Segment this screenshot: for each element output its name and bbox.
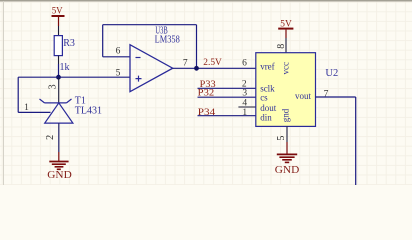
wire vout down bbox=[355, 97, 357, 185]
IC U2 body bbox=[256, 53, 316, 127]
svg-text:R3: R3 bbox=[63, 38, 75, 49]
svg-text:7: 7 bbox=[183, 59, 188, 69]
svg-text:TL431: TL431 bbox=[75, 106, 102, 117]
svg-text:LM358: LM358 bbox=[155, 35, 180, 46]
wire vout right bbox=[316, 96, 356, 98]
resistor R3 pin 2 (top) bbox=[58, 26, 60, 36]
resistor R3 bbox=[54, 36, 62, 56]
wire junction left to ref loop bbox=[18, 76, 58, 78]
ground GND (left) bbox=[47, 152, 72, 181]
svg-text:U2: U2 bbox=[325, 68, 338, 79]
wire op-amp pin 6 stub bbox=[103, 56, 130, 58]
svg-text:2.5V: 2.5V bbox=[203, 58, 222, 68]
wire feedback right vertical bbox=[196, 25, 198, 69]
junction node 2.5V rail bbox=[56, 75, 61, 80]
svg-text:2: 2 bbox=[45, 135, 56, 140]
svg-text:3: 3 bbox=[242, 88, 247, 98]
junction node output bbox=[194, 66, 199, 71]
wire P34 to din pin 1 bbox=[198, 115, 256, 117]
pin dout stub pin 4 bbox=[238, 106, 255, 108]
pin vcc pin 8 bbox=[285, 38, 287, 53]
svg-text:GND: GND bbox=[275, 165, 300, 176]
svg-text:cs: cs bbox=[260, 92, 268, 102]
svg-text:dout: dout bbox=[260, 103, 277, 113]
svg-text:vout: vout bbox=[295, 91, 312, 101]
resistor R3 pin 1 (bottom) bbox=[58, 56, 60, 64]
svg-text:6: 6 bbox=[242, 59, 247, 69]
wire ref loop vertical bbox=[17, 77, 19, 112]
transistor T1 TL431 bbox=[40, 77, 73, 123]
wire P33 to sclk pin 2 bbox=[198, 87, 256, 89]
svg-text:1k: 1k bbox=[60, 62, 70, 73]
svg-text:din: din bbox=[260, 113, 272, 123]
power port 5V (right) bbox=[278, 19, 293, 38]
wire resistor to junction bbox=[58, 64, 60, 77]
svg-text:vcc: vcc bbox=[281, 62, 291, 75]
op-amp U3B bbox=[130, 45, 173, 92]
svg-text:7: 7 bbox=[324, 89, 329, 99]
svg-text:1: 1 bbox=[242, 108, 247, 118]
svg-text:GND: GND bbox=[47, 170, 72, 181]
wire junction to op-amp pin 5 bbox=[59, 76, 131, 78]
power port 5V (left) bbox=[52, 7, 65, 27]
svg-text:5: 5 bbox=[116, 69, 121, 79]
svg-text:8: 8 bbox=[276, 44, 287, 49]
svg-text:5: 5 bbox=[276, 136, 287, 141]
svg-text:6: 6 bbox=[116, 47, 121, 57]
ground GND (right) bbox=[275, 142, 300, 176]
svg-text:1: 1 bbox=[24, 103, 29, 113]
wire feedback left vertical bbox=[102, 25, 104, 57]
wire P32 to cs pin 3 bbox=[198, 96, 256, 98]
svg-text:vref: vref bbox=[260, 62, 275, 72]
pin gnd pin 5 bbox=[286, 126, 288, 142]
wire TL431 anode down bbox=[58, 123, 60, 152]
wire feedback top bbox=[103, 24, 197, 26]
wire op-amp output to chip vref bbox=[173, 67, 256, 69]
svg-text:gnd: gnd bbox=[281, 108, 291, 122]
svg-text:P34: P34 bbox=[198, 108, 216, 118]
svg-text:3: 3 bbox=[48, 84, 59, 89]
wire TL431 ref pin 1 bbox=[18, 111, 50, 113]
